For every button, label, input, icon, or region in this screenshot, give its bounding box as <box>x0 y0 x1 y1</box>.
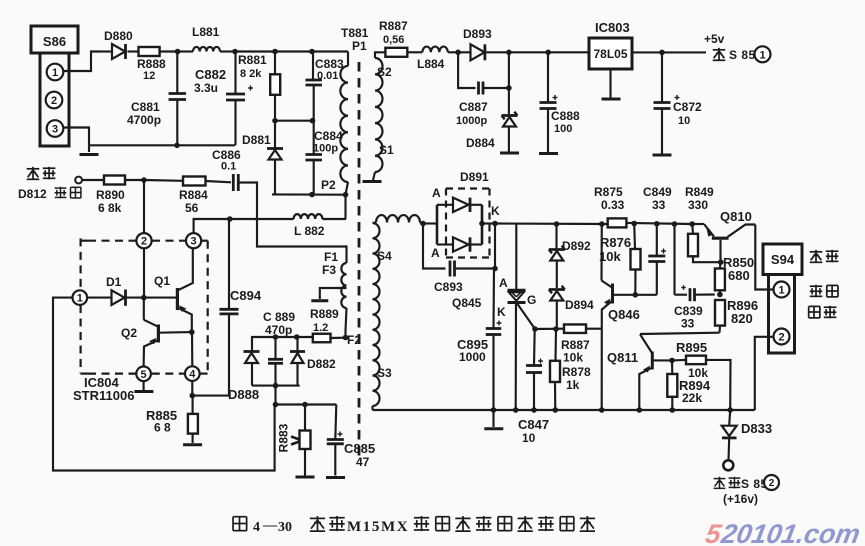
svg-text:3.3u: 3.3u <box>194 81 218 95</box>
svg-text:2: 2 <box>141 236 147 248</box>
svg-text:12: 12 <box>143 70 155 82</box>
svg-text:R881: R881 <box>238 53 267 67</box>
pin 1 of S86 <box>47 64 64 81</box>
svg-text:C 889: C 889 <box>263 310 295 324</box>
svg-text:IC803: IC803 <box>595 20 630 35</box>
IC803 ground pin <box>609 69 611 98</box>
node C882 top <box>232 49 238 55</box>
resistor R885 <box>192 396 194 414</box>
capacitor C895 <box>492 269 495 329</box>
node gate <box>532 326 538 332</box>
svg-text:C884: C884 <box>314 129 343 143</box>
svg-text:2: 2 <box>51 95 57 107</box>
node Q846 base-R876 <box>633 292 639 298</box>
resistor R890 <box>104 176 125 185</box>
svg-text:1000p: 1000p <box>456 115 487 127</box>
svg-text:M15MX: M15MX <box>347 519 409 535</box>
inductor L884 <box>422 47 447 53</box>
node C839 top <box>672 221 678 227</box>
capacitor C885 <box>335 405 336 440</box>
svg-text:100p: 100p <box>313 143 338 155</box>
svg-text:S94: S94 <box>771 252 795 267</box>
svg-text:R889: R889 <box>310 307 339 321</box>
wire pin3 to ground rail <box>64 128 90 146</box>
ground at C888 <box>539 152 558 155</box>
svg-text:1000: 1000 <box>459 350 486 364</box>
svg-text:470p: 470p <box>265 323 292 337</box>
svg-text:C849: C849 <box>643 185 672 199</box>
T881 secondary S4-S3 winding <box>371 406 373 410</box>
pin 2 of S94 <box>774 329 790 345</box>
svg-text:R895: R895 <box>676 340 707 355</box>
svg-text:0.1: 0.1 <box>221 161 236 173</box>
node L884-D893 <box>455 50 461 56</box>
resistor R888 <box>139 47 160 56</box>
svg-text:A: A <box>499 276 508 290</box>
svg-text:D894: D894 <box>565 298 594 312</box>
svg-text:Q845: Q845 <box>452 296 482 310</box>
node Q811 base / R895 / R894 <box>669 358 675 364</box>
ground at S1 <box>373 172 375 180</box>
svg-text:Q811: Q811 <box>607 350 638 365</box>
snubber bottom wire <box>252 385 300 387</box>
node R850-R896-C839 <box>717 292 723 298</box>
IC804 dashed box right edge <box>207 241 209 374</box>
resistor R849 <box>691 224 694 234</box>
resistor R883 (variable) <box>304 405 306 431</box>
capacitor C881 <box>176 52 178 94</box>
svg-text:C888: C888 <box>551 109 580 123</box>
svg-text:D812: D812 <box>18 187 47 201</box>
svg-text:S4: S4 <box>377 249 392 263</box>
wire to R884 <box>144 179 183 182</box>
svg-text:C882: C882 <box>195 67 226 82</box>
svg-text:0,56: 0,56 <box>383 34 404 46</box>
svg-text:4: 4 <box>189 369 196 381</box>
svg-text:R884: R884 <box>179 188 208 202</box>
svg-text:Q846: Q846 <box>608 307 640 322</box>
zener diode D884 <box>506 85 512 91</box>
svg-text:P2: P2 <box>321 178 336 192</box>
wire to pin4 <box>191 332 193 366</box>
svg-text:1: 1 <box>778 284 784 296</box>
IC804 pin 5 <box>136 367 151 382</box>
capacitor C872 <box>661 52 663 102</box>
svg-text:D893: D893 <box>463 27 492 41</box>
svg-text:6 8: 6 8 <box>154 421 171 435</box>
resistor R894 <box>671 360 673 374</box>
label from S85 (+16v) <box>714 478 726 480</box>
svg-text:10k: 10k <box>599 249 621 264</box>
node Q1 emitter / Q2 base <box>189 329 195 335</box>
snubber top wire <box>252 337 313 351</box>
capacitor C849 <box>654 221 660 227</box>
svg-text:C893: C893 <box>434 280 463 294</box>
wire R890 node down to pin2 <box>143 180 145 233</box>
pin 2 of S86 <box>46 92 63 109</box>
capacitor C894 <box>192 314 229 396</box>
wire C886 to base network <box>238 183 346 264</box>
svg-text:A: A <box>432 186 441 200</box>
wire pin3 up to L882 rail <box>194 219 230 233</box>
ground at D884 <box>500 152 519 155</box>
svg-text:R849: R849 <box>685 185 714 199</box>
wire to +5v terminal <box>662 51 706 53</box>
node C893-C895 <box>492 266 498 272</box>
bus after R875 <box>626 223 692 224</box>
diode D880 <box>100 50 112 52</box>
svg-text:S 85: S 85 <box>729 48 756 62</box>
svg-text:10: 10 <box>678 115 690 127</box>
wire to R890 <box>82 179 104 181</box>
node D894-R878 <box>553 326 559 332</box>
svg-text:D882: D882 <box>307 357 336 371</box>
diode D1 <box>87 297 111 299</box>
capacitor C888 <box>547 52 549 102</box>
label from D812 <box>27 168 40 170</box>
T881 core <box>358 62 361 460</box>
svg-text:3: 3 <box>191 236 197 248</box>
capacitor C883 <box>312 52 314 81</box>
svg-text:D884: D884 <box>466 136 495 150</box>
node L882 rail / C894 <box>227 216 233 222</box>
svg-text:1.2: 1.2 <box>313 322 328 334</box>
svg-text:47: 47 <box>356 455 370 469</box>
winding tap to ground <box>320 288 347 299</box>
capacitor C889 <box>274 337 276 359</box>
wire snubber to R883 rail <box>274 386 276 405</box>
svg-text:5: 5 <box>141 369 147 381</box>
wire gate to R887 <box>535 328 564 330</box>
connector S86 <box>31 26 78 53</box>
wire R896 to Q811 collector <box>640 333 720 334</box>
resistor R884 <box>183 177 206 186</box>
svg-text:Q810: Q810 <box>720 209 752 224</box>
svg-text:L881: L881 <box>192 25 220 39</box>
ground at R883 <box>296 476 315 479</box>
svg-text:8 2k: 8 2k <box>240 68 262 80</box>
zener diode D894 <box>549 288 565 291</box>
svg-text:S3: S3 <box>377 366 392 380</box>
ground at pin 5 <box>143 381 145 390</box>
node wire R881-C883 <box>272 118 278 124</box>
svg-text:10k: 10k <box>563 351 583 365</box>
IC804 dashed box left edge <box>79 238 81 290</box>
wire pin2 down <box>143 248 145 290</box>
T881 primary P1 winding <box>347 52 349 67</box>
svg-text:(+16v): (+16v) <box>723 492 758 506</box>
resistor R895 (10k) <box>672 359 686 362</box>
svg-text:D881: D881 <box>242 133 271 147</box>
inductor L882 <box>230 218 294 220</box>
svg-text:56: 56 <box>185 201 199 215</box>
resistor R876 <box>631 221 637 227</box>
caption: figure 4-30 Panasonic M15MX auxiliary power supply <box>232 517 234 531</box>
wire to IC803 <box>509 51 548 53</box>
connector S94 <box>763 244 802 275</box>
svg-text:R888: R888 <box>137 57 166 71</box>
node D1-Q1 base <box>141 295 147 301</box>
regulator IC803 (78L05) <box>589 38 632 69</box>
svg-text:C847: C847 <box>518 417 549 432</box>
resistor R875 (0.33) <box>599 221 605 227</box>
terminal from D812 <box>75 177 82 184</box>
resistor R850 <box>719 262 722 268</box>
svg-text:1: 1 <box>52 67 58 79</box>
IC804 pin 3 <box>186 233 201 248</box>
node Q810 base / R850 <box>718 259 724 265</box>
svg-text:D891: D891 <box>460 170 489 184</box>
ground at C872 <box>653 154 672 157</box>
svg-text:S2: S2 <box>377 65 392 79</box>
svg-text:R883: R883 <box>277 423 291 452</box>
svg-text:100: 100 <box>554 123 572 135</box>
resistor R887 (0.56) <box>385 48 407 57</box>
IC804 dashed box top edge <box>88 240 136 242</box>
svg-text:1: 1 <box>759 49 765 61</box>
svg-text:F3: F3 <box>322 263 336 277</box>
svg-text:33: 33 <box>652 198 666 212</box>
IC804 dashed box bottom edge <box>88 373 136 375</box>
wire pin1 to top rail <box>63 52 100 72</box>
svg-text:C881: C881 <box>131 100 160 114</box>
pin 3 of S86 <box>47 120 64 137</box>
svg-text:D888: D888 <box>228 387 259 402</box>
capacitor C847 <box>533 329 536 366</box>
resistor R881 <box>274 52 276 75</box>
IC804 pin 2 <box>136 233 151 248</box>
gate wire Q845 <box>518 304 536 329</box>
svg-text:C885: C885 <box>344 441 375 456</box>
node R849 top <box>689 221 695 227</box>
svg-text:K: K <box>497 305 506 319</box>
node R890-R884 <box>141 177 147 183</box>
T881 secondary S2-S1 winding <box>375 52 385 58</box>
svg-text:F2: F2 <box>347 333 361 347</box>
svg-text:—: — <box>262 518 278 533</box>
node bridge output <box>479 221 485 227</box>
svg-text:C872: C872 <box>673 100 702 114</box>
svg-text:20101.com: 20101.com <box>718 518 862 546</box>
node F2 <box>343 335 349 341</box>
svg-text:D833: D833 <box>741 421 772 436</box>
svg-text:D892: D892 <box>562 239 591 253</box>
wire rail to T881 P1 <box>312 50 348 52</box>
diode D833 <box>729 410 730 426</box>
svg-text:33: 33 <box>681 317 695 331</box>
node R881 top <box>272 49 278 55</box>
wire IC803 out <box>632 51 662 53</box>
svg-text:K: K <box>491 204 500 218</box>
terminal to S85 pin2 <box>723 460 733 470</box>
svg-text:6 8k: 6 8k <box>98 201 122 215</box>
svg-text:C883: C883 <box>315 57 344 71</box>
svg-text:T881: T881 <box>341 26 369 40</box>
capacitor C839 <box>673 224 675 295</box>
svg-text:0.01: 0.01 <box>317 70 338 82</box>
wire rail <box>235 50 275 52</box>
zener diode D881 <box>274 121 276 148</box>
diode D882 <box>296 337 298 352</box>
node C881 top <box>175 49 181 55</box>
secondary ground bus <box>373 409 755 411</box>
svg-text:330: 330 <box>688 198 708 212</box>
svg-text:Q2: Q2 <box>121 326 137 340</box>
T881 feedback winding F1-F3 <box>341 263 346 308</box>
capacitor C887 <box>458 52 475 88</box>
svg-text:0.33: 0.33 <box>601 198 625 212</box>
diode D893 <box>458 51 470 53</box>
wire rail <box>275 50 312 52</box>
svg-text:4700p: 4700p <box>127 113 161 127</box>
ground at C895 bus <box>492 410 494 427</box>
diode D888 <box>244 350 260 353</box>
main bus from bridge <box>482 222 495 224</box>
ground at R885 <box>183 443 202 446</box>
svg-text:22k: 22k <box>682 391 702 405</box>
inductor L881 <box>193 47 220 52</box>
capacitor C884 <box>313 121 315 155</box>
svg-text:L 882: L 882 <box>294 224 325 238</box>
node pin4-R885-C894 <box>190 393 196 399</box>
wire S94 pin2 to bus <box>755 337 774 410</box>
ground at S86 <box>88 145 90 152</box>
pin 1 of S94 <box>774 282 790 298</box>
feedback wire pin1 to snubber node <box>53 298 275 471</box>
wire pin4 to R885 node <box>191 381 193 396</box>
wire L882 to P2 rail <box>344 195 346 219</box>
svg-text:1: 1 <box>77 293 83 305</box>
svg-text:+5v: +5v <box>704 32 725 46</box>
node C883 top <box>309 49 315 55</box>
svg-text:2: 2 <box>778 331 784 343</box>
svg-text:R878: R878 <box>562 365 591 379</box>
label audio amp power <box>810 251 823 253</box>
zener diode D892 <box>554 221 560 227</box>
svg-text:S86: S86 <box>43 34 66 49</box>
svg-text:30: 30 <box>278 520 292 535</box>
svg-text:1k: 1k <box>566 378 580 392</box>
svg-text:STR11006: STR11006 <box>73 388 134 403</box>
svg-text:R875: R875 <box>594 185 623 199</box>
svg-text:G: G <box>527 293 536 307</box>
node C872 top <box>659 50 665 56</box>
wire pin2 to Q2 collector <box>143 290 145 298</box>
svg-text:S1: S1 <box>379 143 394 157</box>
svg-text:820: 820 <box>731 311 753 326</box>
svg-text:R890: R890 <box>96 188 125 202</box>
capacitor C886 <box>232 174 235 191</box>
IC804 pin 4 <box>185 366 200 381</box>
wire Q810 collector to S94 pin1 <box>755 225 773 290</box>
ground at C885 <box>326 476 345 479</box>
svg-text:10: 10 <box>522 431 536 445</box>
svg-text:P1: P1 <box>352 39 367 53</box>
svg-text:D880: D880 <box>104 29 133 43</box>
svg-text:Q1: Q1 <box>154 274 170 288</box>
svg-text:R887: R887 <box>379 19 408 33</box>
resistor R896 <box>715 300 725 326</box>
node D893 cathode <box>506 50 512 56</box>
watermark 520101.com <box>703 518 862 546</box>
resistor R887 (10k) <box>564 324 586 333</box>
svg-text:F1: F1 <box>324 250 338 264</box>
R883 rail <box>275 403 337 405</box>
svg-text:3: 3 <box>52 123 58 135</box>
svg-text:2: 2 <box>769 478 775 489</box>
capacitor C893 <box>423 224 446 269</box>
svg-text:C887: C887 <box>459 100 488 114</box>
svg-text:680: 680 <box>728 268 750 283</box>
wire R895 to D833 node <box>706 360 731 410</box>
capacitor C882 <box>234 52 236 95</box>
resistor R878 <box>554 329 557 361</box>
svg-text:78L05: 78L05 <box>593 47 627 61</box>
resistor R889 <box>313 334 331 343</box>
svg-text:D1: D1 <box>106 275 122 289</box>
P2 rail wire <box>272 193 346 195</box>
svg-text:C894: C894 <box>230 288 262 303</box>
svg-text:R876: R876 <box>600 235 631 250</box>
wire rail to L881 <box>178 50 193 52</box>
svg-text:A: A <box>431 246 440 260</box>
ground rail from S86 <box>89 144 235 146</box>
svg-text:4: 4 <box>253 520 260 535</box>
node bridge input <box>420 221 426 227</box>
IC804 pin 1 <box>73 290 88 305</box>
svg-text:L884: L884 <box>417 57 445 71</box>
